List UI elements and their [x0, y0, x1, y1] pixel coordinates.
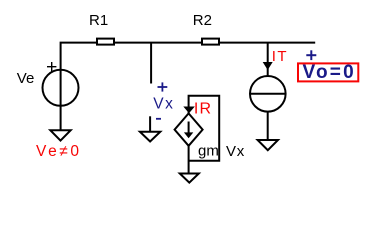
- output terminal plus: [306, 50, 316, 60]
- wire top rail: [61, 43, 316, 131]
- test current source IT (circle): [250, 76, 286, 112]
- svg-text:R1: R1: [89, 12, 108, 29]
- svg-text:gm: gm: [198, 142, 219, 159]
- node Vx plus label: [158, 82, 168, 91]
- svg-text:Ve: Ve: [17, 70, 35, 87]
- dependent source gm*Vx (diamond): [175, 113, 203, 145]
- wire from diamond to ground: [188, 146, 190, 174]
- svg-text:Vo=0: Vo=0: [303, 62, 356, 83]
- svg-text:Ve≠0: Ve≠0: [36, 143, 82, 160]
- label gm Vx: [198, 142, 245, 160]
- wire node Vx: [150, 43, 152, 84]
- resistor R1: [89, 12, 114, 44]
- wire loop around dependent source: [189, 96, 220, 161]
- ground under dependent source: [180, 174, 199, 183]
- ground under Vx: [140, 116, 160, 141]
- highlighted result box Vo=0: [298, 62, 358, 83]
- ground under Ve: [50, 130, 70, 140]
- wire from IT source to ground: [267, 113, 269, 141]
- current arrow IT: [263, 48, 288, 70]
- svg-text:Vx: Vx: [153, 96, 174, 113]
- svg-text:Vx: Vx: [226, 143, 245, 160]
- svg-text:R2: R2: [193, 12, 212, 29]
- ground under IT: [258, 140, 278, 150]
- current arrow IR: [183, 101, 212, 118]
- resistor R2: [193, 12, 219, 44]
- node Vx minus label: [156, 118, 161, 120]
- svg-text:IR: IR: [194, 101, 212, 118]
- svg-text:IT: IT: [272, 48, 288, 65]
- wire test source branch: [267, 43, 269, 76]
- voltage source Ve: [17, 62, 79, 106]
